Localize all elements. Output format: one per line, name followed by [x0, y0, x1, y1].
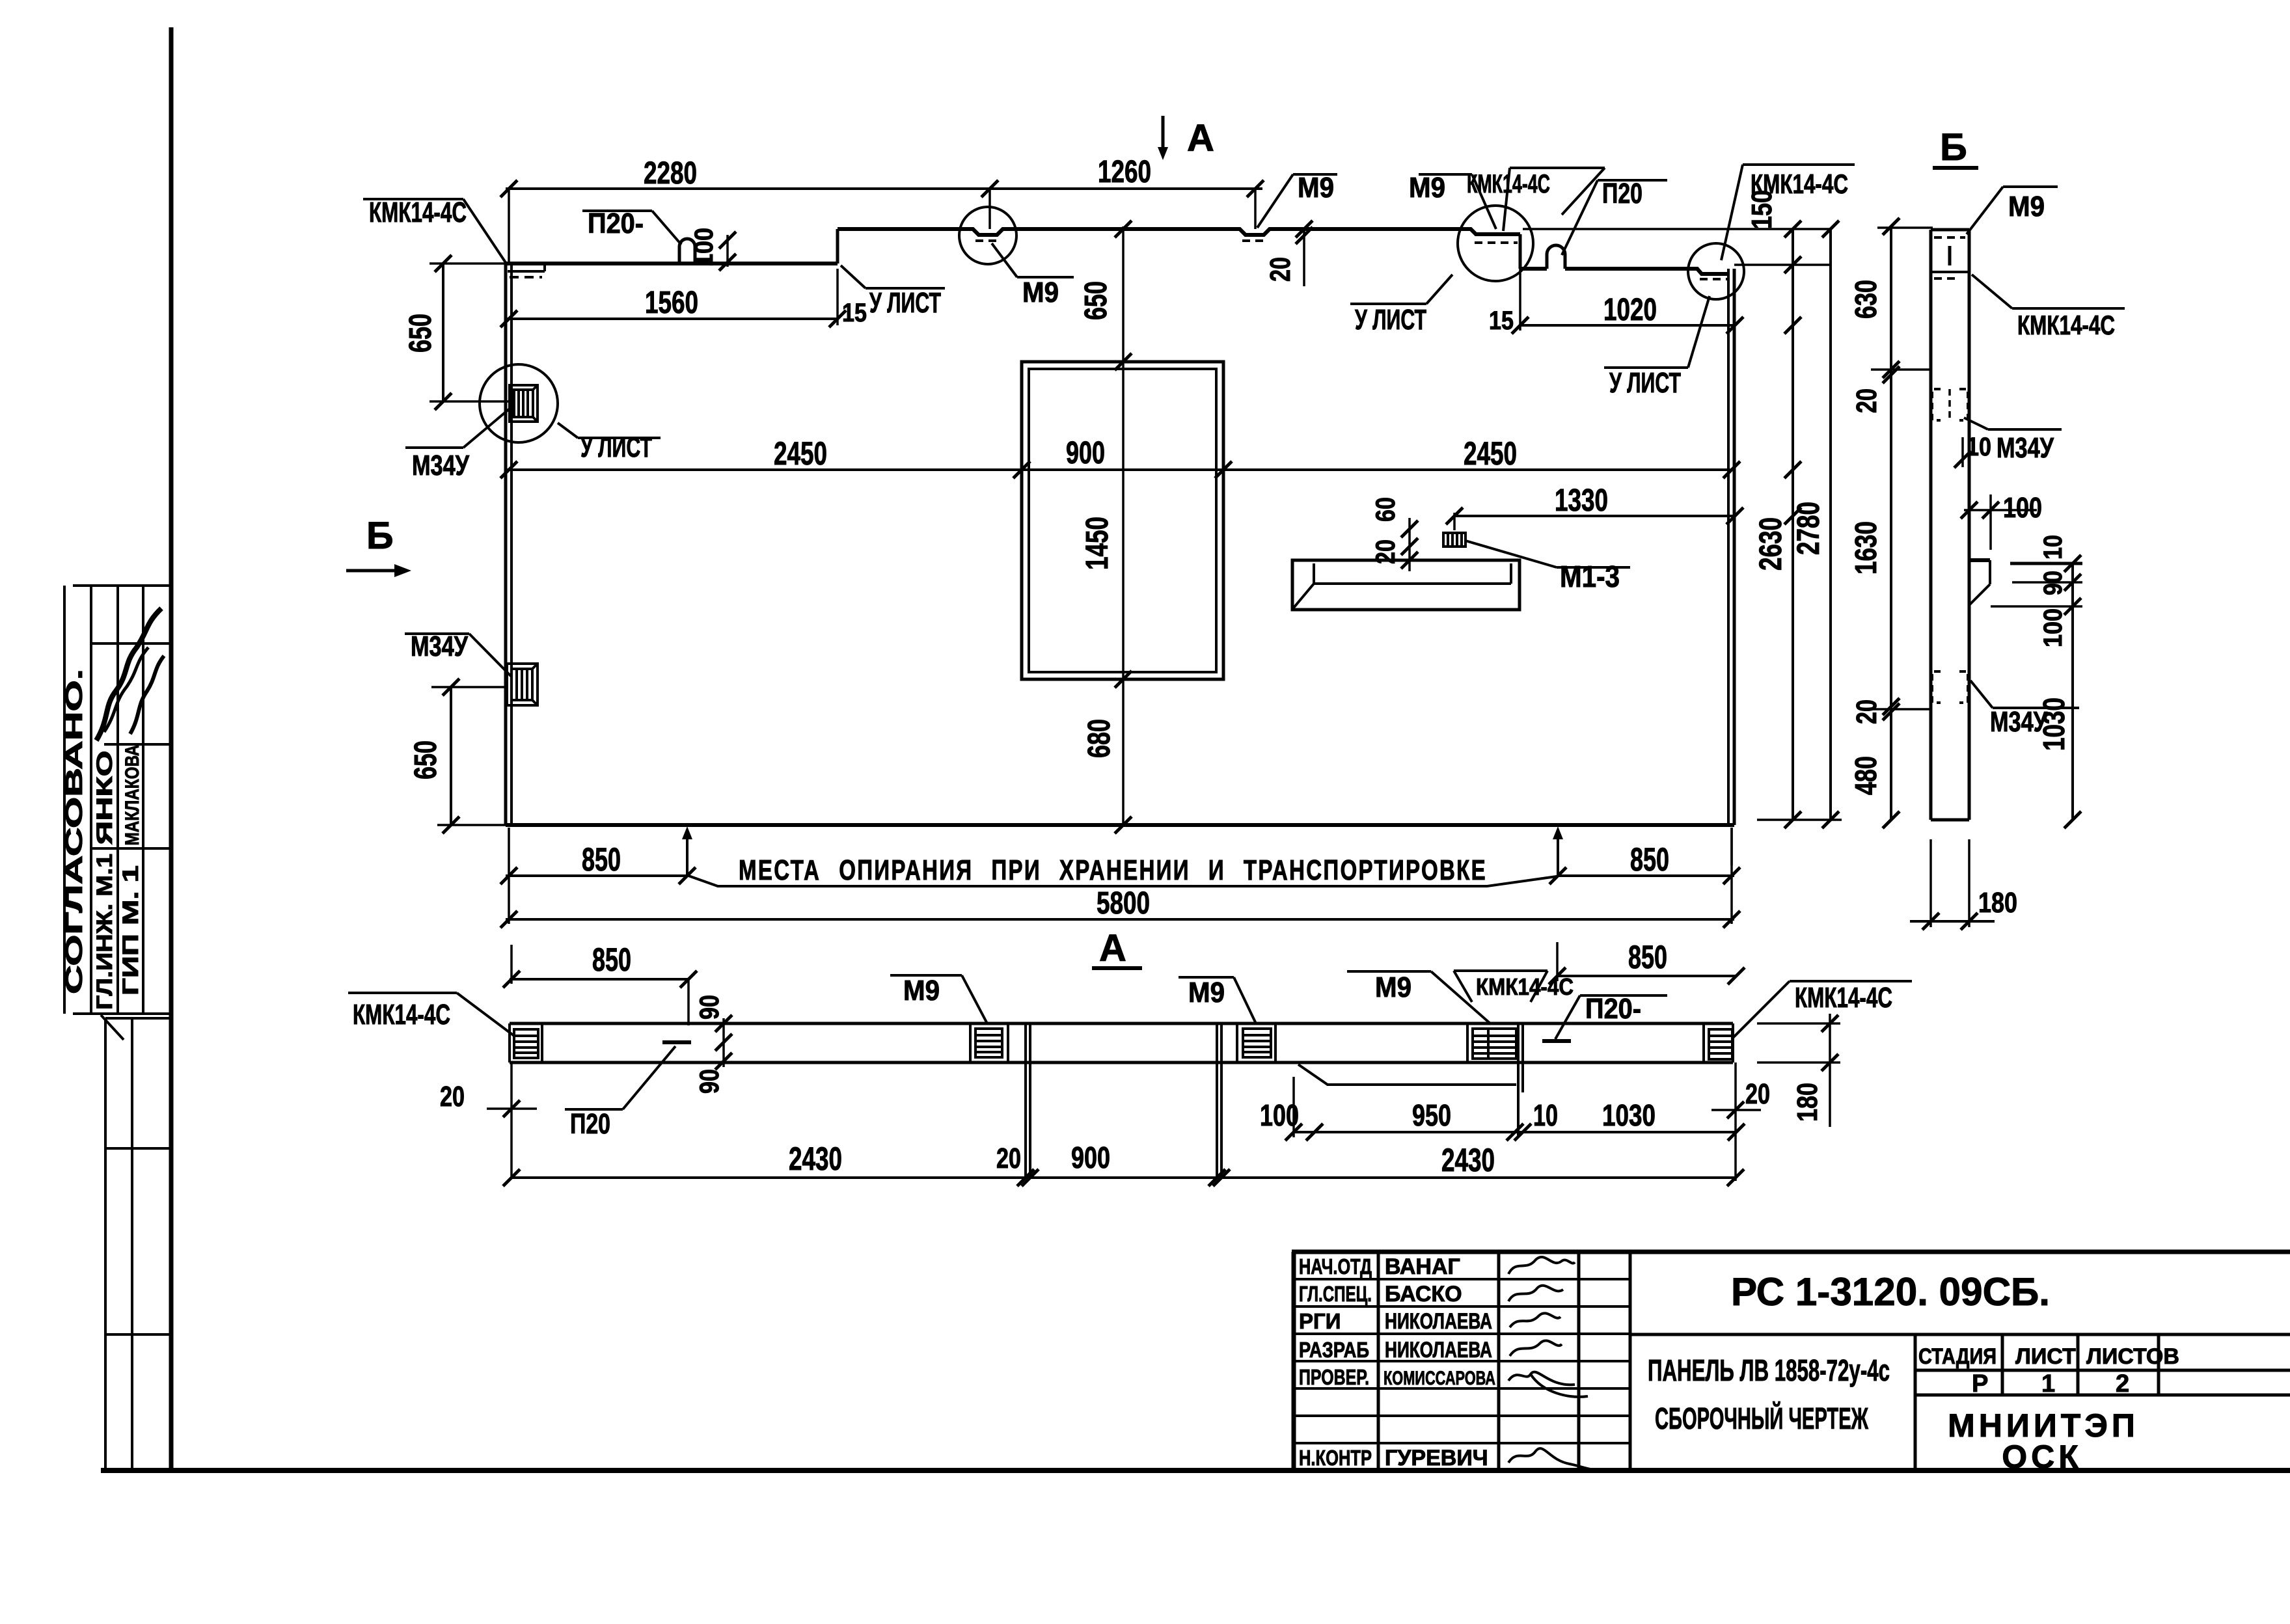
window opening outer rectangle — [1022, 362, 1223, 679]
svg-text:2: 2 — [2116, 1370, 2129, 1398]
svg-text:Н.КОНТР: Н.КОНТР — [1299, 1446, 1372, 1470]
M9 anchor block A (hatched) — [970, 1023, 1008, 1062]
svg-text:М9: М9 — [1375, 971, 1411, 1003]
vertical dimension 2780 — [1829, 229, 1832, 820]
svg-text:10: 10 — [2039, 535, 2067, 560]
M9 notch 1 dashed seam — [975, 239, 1002, 242]
dimension 650 lower-left — [450, 687, 452, 825]
svg-text:1030: 1030 — [1602, 1098, 1656, 1132]
label M34U no.2 — [405, 632, 469, 635]
svg-text:М9: М9 — [1409, 172, 1445, 204]
panel bottom edge — [506, 823, 1734, 827]
svg-text:НИКОЛАЕВА: НИКОЛАЕВА — [1385, 1309, 1492, 1334]
anchor M34U no.2 on left edge — [507, 664, 538, 705]
svg-text:СБОРОЧНЫЙ ЧЕРТЕЖ: СБОРОЧНЫЙ ЧЕРТЕЖ — [1655, 1401, 1868, 1435]
svg-text:15: 15 — [842, 299, 867, 327]
svg-text:Р: Р — [1972, 1370, 1988, 1398]
anchor M1-3 (hatched plate) — [1443, 533, 1465, 547]
label M9 section no.1 — [890, 974, 962, 977]
svg-text:РГИ: РГИ — [1299, 1309, 1341, 1333]
svg-text:РС 1-3120. 09СБ.: РС 1-3120. 09СБ. — [1731, 1270, 2050, 1314]
svg-text:У ЛИСТ: У ЛИСТ — [1355, 304, 1426, 336]
label 10 M34U — [1988, 428, 2062, 431]
svg-text:КМК14-4С: КМК14-4С — [1467, 170, 1550, 198]
label U LIST no.1 (M34U circle) — [558, 423, 578, 438]
M34U marks upper (side view) — [1932, 389, 1968, 420]
svg-text:2780: 2780 — [1792, 502, 1826, 555]
dimension 5800 — [506, 918, 1734, 921]
svg-text:М1-3: М1-3 — [1560, 560, 1620, 593]
dim 180 strip thickness (right of section) — [1757, 1022, 1840, 1025]
svg-text:БАСКО: БАСКО — [1385, 1282, 1462, 1306]
svg-text:ГЛ.ИНЖ. М.1: ГЛ.ИНЖ. М.1 — [92, 854, 117, 1010]
small dims 60 and 20 at anchor M1-3 — [1408, 518, 1411, 571]
svg-text:П20-: П20- — [588, 208, 644, 239]
svg-text:Б: Б — [366, 515, 394, 557]
svg-text:У ЛИСТ: У ЛИСТ — [1609, 367, 1681, 399]
strip top edge — [510, 1022, 1733, 1025]
P20 lifting loop (left, on edge y=405) — [679, 239, 695, 264]
svg-text:1020: 1020 — [1603, 293, 1657, 327]
top-right corner dashed seam — [1700, 278, 1727, 280]
svg-text:850: 850 — [1628, 939, 1667, 975]
dimension 650 upper-left — [442, 264, 444, 401]
svg-text:МАКЛАКОВА: МАКЛАКОВА — [122, 745, 143, 846]
svg-text:20: 20 — [1370, 539, 1400, 564]
label M34U (side view lower) — [1993, 707, 2079, 709]
label M9 no.1 (leader to notch 1) — [992, 243, 1017, 277]
joint line at x 2336 — [1517, 1023, 1520, 1135]
svg-text:НАЧ.ОТД: НАЧ.ОТД — [1299, 1254, 1372, 1279]
detail circle around M34U no.1 — [480, 364, 558, 442]
svg-text:НИКОЛАЕВА: НИКОЛАЕВА — [1385, 1338, 1492, 1362]
svg-text:1330: 1330 — [1555, 483, 1608, 518]
dimension 850 section-left — [510, 978, 688, 981]
P20 lifting loop (right, on edge y=413) — [1547, 245, 1565, 269]
svg-text:1: 1 — [2041, 1370, 2055, 1398]
svg-text:ПАНЕЛЬ ЛВ 1858-72у-4с: ПАНЕЛЬ ЛВ 1858-72у-4с — [1648, 1353, 1890, 1387]
svg-text:А: А — [1099, 927, 1126, 969]
label M9 section no.2 — [1179, 976, 1234, 979]
label U LIST no.2 (step) — [841, 265, 866, 288]
dim 1450 window height (rotated) — [1115, 671, 1132, 688]
svg-text:2430: 2430 — [789, 1141, 842, 1177]
drawing frame left border — [169, 27, 174, 1470]
side view M9 detail at top — [1934, 236, 1965, 239]
label M1-3 — [1465, 541, 1557, 567]
label P20- right — [1580, 994, 1667, 997]
svg-text:КМК14-4С: КМК14-4С — [1751, 169, 1848, 199]
svg-text:2280: 2280 — [644, 156, 697, 191]
svg-text:КМК14-4С: КМК14-4С — [369, 196, 467, 228]
svg-text:20: 20 — [1264, 257, 1296, 282]
dimension 1020 — [1520, 324, 1735, 327]
lower blank stamp table — [101, 1015, 171, 1470]
dimension 2430/20/900/20/2430 — [511, 1176, 1736, 1179]
svg-text:ПРОВЕР.: ПРОВЕР. — [1299, 1365, 1369, 1389]
svg-text:М9: М9 — [1298, 172, 1334, 204]
svg-text:М34У: М34У — [411, 630, 468, 662]
svg-text:650: 650 — [403, 314, 438, 353]
svg-text:90: 90 — [694, 995, 724, 1020]
svg-text:ОСК: ОСК — [2002, 1439, 2082, 1475]
svg-text:20: 20 — [996, 1143, 1021, 1174]
svg-text:ВАНАГ: ВАНАГ — [1385, 1254, 1460, 1279]
panel top edge right portion — [1520, 269, 1728, 274]
approval stamp table (upper-left, rotated) — [64, 586, 171, 1014]
svg-text:5800: 5800 — [1097, 886, 1150, 921]
svg-text:650: 650 — [409, 740, 443, 779]
bottom extension line under panel right edge — [1730, 828, 1733, 865]
svg-text:М9: М9 — [1188, 977, 1225, 1008]
svg-text:У ЛИСТ: У ЛИСТ — [869, 287, 941, 319]
M9 anchor block C (hatched) — [1467, 1023, 1516, 1062]
dimension line 2280/1260 — [506, 187, 1262, 190]
dimension 1560 — [506, 318, 838, 320]
panel right edge (double line) — [1727, 269, 1730, 825]
svg-text:ГУРЕВИЧ: ГУРЕВИЧ — [1385, 1446, 1488, 1470]
svg-text:КМК14-4С: КМК14-4С — [1795, 982, 1892, 1014]
svg-text:1260: 1260 — [1098, 155, 1151, 189]
drawing frame bottom border — [101, 1468, 2290, 1473]
svg-text:100: 100 — [690, 228, 718, 267]
support position arrow right — [1557, 832, 1559, 874]
dimension 850 right (front view) — [1558, 874, 1734, 877]
title block signatures — [1508, 1257, 1602, 1470]
svg-text:100: 100 — [2003, 492, 2042, 524]
svg-text:10: 10 — [1533, 1098, 1558, 1132]
svg-text:630: 630 — [1849, 280, 1883, 319]
ventilation bar M1-3 (3d box) — [1292, 560, 1520, 610]
dimension line 2450/900/2450 — [506, 468, 1734, 471]
svg-text:900: 900 — [1071, 1141, 1110, 1174]
label KMK14-4C (far top, leader to corner circle) — [1743, 163, 1855, 166]
svg-text:10: 10 — [1967, 433, 1991, 461]
svg-text:15: 15 — [1489, 306, 1514, 335]
section cut mark A (arrow) — [1162, 116, 1165, 150]
svg-text:2430: 2430 — [1441, 1142, 1495, 1178]
left dim chain of side view (630/20/1630/20/480) — [1890, 226, 1892, 820]
svg-text:У ЛИСТ: У ЛИСТ — [580, 431, 652, 463]
note МЕСТА ОПИРАНИЯ... — [688, 876, 1557, 886]
window vertical centerline — [1122, 226, 1125, 825]
svg-text:ЯНКО: ЯНКО — [92, 751, 117, 845]
anchor M34U no.1 on left edge — [510, 385, 538, 422]
svg-text:680: 680 — [1082, 719, 1117, 758]
svg-text:1560: 1560 — [645, 286, 698, 320]
svg-text:850: 850 — [1630, 841, 1669, 878]
svg-text:П20: П20 — [1602, 178, 1643, 210]
side view rib protrusion — [1969, 558, 1990, 562]
bracket under strip (right part) — [1298, 1064, 1516, 1085]
svg-text:КМК14-4С: КМК14-4С — [353, 999, 450, 1031]
top-left corner KMK notch detail — [508, 270, 545, 273]
extension of edge y=407 to the right — [1734, 264, 1831, 266]
svg-text:20: 20 — [1745, 1078, 1770, 1110]
M9 anchor block B (hatched) — [1237, 1023, 1275, 1062]
dim 20 section right end — [1734, 1062, 1737, 1181]
label M9 no.2 (leader to notch 2) — [1257, 174, 1293, 228]
svg-text:М9: М9 — [1022, 277, 1059, 308]
strip bottom edge — [510, 1061, 1733, 1064]
label M9 no.3 (leader to KMK notch) — [1419, 173, 1472, 176]
label M34U no.1 — [405, 446, 463, 449]
P20 mark left (dash in strip) — [662, 1040, 691, 1044]
strip left end — [508, 1023, 511, 1062]
label M9 section no.3 — [1347, 970, 1431, 973]
svg-text:850: 850 — [592, 941, 631, 978]
dim 20 section left end — [510, 1062, 513, 1178]
strip right end — [1732, 1023, 1734, 1062]
label U LIST no.3 — [1426, 275, 1452, 304]
label U LIST no.4 (corner circle) — [1688, 296, 1710, 368]
svg-text:480: 480 — [1849, 756, 1883, 795]
label P20 left — [565, 1108, 623, 1111]
svg-text:90: 90 — [2039, 571, 2067, 595]
svg-text:Б: Б — [1940, 126, 1967, 169]
right dim chain of side view (10/90/100/1030) — [2071, 563, 2074, 820]
svg-text:850: 850 — [582, 841, 621, 878]
svg-text:М9: М9 — [903, 975, 940, 1007]
svg-text:М9: М9 — [2008, 191, 2045, 223]
label KMK14-4C section-left — [348, 992, 457, 994]
window joint lines (left) — [1024, 1023, 1027, 1178]
svg-text:1030: 1030 — [2037, 697, 2071, 751]
panel top edge upper portion — [838, 229, 1520, 235]
svg-text:2630: 2630 — [1754, 517, 1788, 571]
svg-text:М34У: М34У — [1997, 432, 2054, 464]
M9 notch 2 dashed seam — [1242, 239, 1268, 242]
svg-text:1450: 1450 — [1080, 517, 1115, 570]
M34U marks lower (side view) — [1932, 671, 1968, 703]
dim 650 at centerline (rotated) — [1115, 221, 1132, 237]
svg-text:ЛИСТ: ЛИСТ — [2015, 1344, 2076, 1369]
window opening inner rectangle — [1029, 369, 1216, 672]
dim 90 / 90 (strip thickness) rotated — [722, 1018, 725, 1067]
svg-text:СТАДИЯ: СТАДИЯ — [1918, 1344, 1997, 1369]
label M9 (side view) — [2003, 185, 2058, 188]
label KMK14-4C (side view) — [2012, 307, 2125, 310]
title block names — [1384, 1254, 1495, 1470]
svg-text:МЕСТА ОПИРАНИЯ ПРИ ХРАНЕНИИ И: МЕСТА ОПИРАНИЯ ПРИ ХРАНЕНИИ И ТРАНСПОРТИ… — [739, 854, 1487, 886]
vertical dimension 2630 — [1792, 229, 1794, 820]
support position arrow left — [686, 832, 688, 874]
detail circle around top-right corner — [1688, 243, 1744, 299]
svg-text:ГИП М. 1: ГИП М. 1 — [118, 865, 143, 995]
svg-text:РАЗРАБ: РАЗРАБ — [1299, 1338, 1369, 1362]
detail circle around KMK notch (top) — [1458, 206, 1533, 281]
svg-text:180: 180 — [1792, 1083, 1823, 1122]
svg-text:2450: 2450 — [774, 435, 827, 472]
window joint lines (right) — [1216, 1023, 1218, 1178]
svg-text:КМК14-4С: КМК14-4С — [1476, 973, 1574, 1000]
dimension 850 section-right — [1557, 975, 1736, 977]
left end anchor block KMK (hatched) — [514, 1023, 542, 1062]
panel top edge step down at x=2336 — [1519, 234, 1522, 269]
svg-text:60: 60 — [1370, 497, 1400, 522]
dim 20 notch depth (rotated) — [1303, 229, 1305, 286]
title block row labels — [1299, 1254, 1372, 1470]
small dim 100 at left loop (rotated) — [726, 235, 729, 267]
side view outline — [1929, 230, 1933, 820]
label KMK14-4C section-right — [1790, 980, 1912, 982]
svg-text:П20: П20 — [570, 1108, 610, 1140]
flag label KMK14-4C section-middle — [1454, 969, 1547, 972]
detail circle around M9 notch 1 — [959, 207, 1016, 264]
svg-text:90: 90 — [694, 1069, 724, 1094]
right end anchor block KMK (hatched) — [1704, 1023, 1732, 1062]
svg-text:ГЛ.СПЕЦ.: ГЛ.СПЕЦ. — [1299, 1282, 1372, 1306]
svg-text:20: 20 — [440, 1081, 465, 1113]
svg-text:650: 650 — [1079, 281, 1113, 320]
svg-text:ЛИСТОВ: ЛИСТОВ — [2086, 1344, 2179, 1369]
svg-text:СОГЛАСОВАНО.: СОГЛАСОВАНО. — [61, 669, 87, 994]
stamp signature 1 (rotated squiggle) — [96, 608, 161, 740]
svg-text:20: 20 — [1851, 699, 1883, 724]
svg-text:900: 900 — [1066, 436, 1105, 470]
panel top edge left portion — [506, 262, 838, 265]
panel left edge (double line) — [504, 264, 508, 825]
panel top edge step at x=1287 — [836, 229, 839, 264]
svg-text:М34У: М34У — [412, 450, 469, 481]
svg-text:20: 20 — [1851, 388, 1883, 413]
dimension 100/950/10/1030 — [1294, 1131, 1736, 1133]
KMK notch dashed seam — [1475, 241, 1518, 244]
dim 100 (side view top of rib) — [1964, 509, 2037, 511]
svg-text:1630: 1630 — [1849, 521, 1883, 575]
flag label KMK14-4C (top middle) — [1510, 167, 1605, 169]
svg-text:100: 100 — [2039, 608, 2067, 647]
svg-text:П20-: П20- — [1585, 993, 1641, 1025]
svg-text:КМК14-4С: КМК14-4С — [2017, 310, 2115, 340]
svg-text:180: 180 — [1978, 887, 2017, 919]
P20 mark right (dash in strip) — [1542, 1039, 1571, 1043]
svg-text:А: А — [1187, 117, 1214, 159]
svg-text:2450: 2450 — [1464, 435, 1517, 472]
dimension 1330 — [1454, 515, 1735, 517]
dimension 850 left (front view) — [506, 874, 687, 877]
svg-text:КОМИССАРОВА: КОМИССАРОВА — [1384, 1368, 1495, 1389]
dim 180 below side view — [1929, 839, 1932, 927]
stamp signature 2 (rotated squiggle) — [130, 656, 164, 734]
dim 680 below window (rotated) — [1115, 817, 1132, 833]
svg-text:950: 950 — [1412, 1098, 1451, 1132]
extension of edge y=352 to the right — [1523, 228, 1831, 230]
svg-text:100: 100 — [1260, 1098, 1299, 1132]
